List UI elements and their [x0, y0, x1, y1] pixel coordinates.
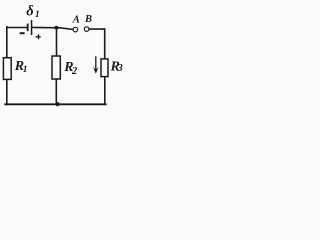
svg-text:3: 3	[117, 63, 123, 74]
svg-text:A: A	[72, 15, 80, 26]
svg-text:2: 2	[71, 66, 78, 77]
svg-text:1: 1	[35, 10, 40, 20]
svg-text:B: B	[84, 14, 92, 25]
svg-text:1: 1	[23, 65, 28, 75]
svg-text:δ: δ	[26, 3, 33, 19]
